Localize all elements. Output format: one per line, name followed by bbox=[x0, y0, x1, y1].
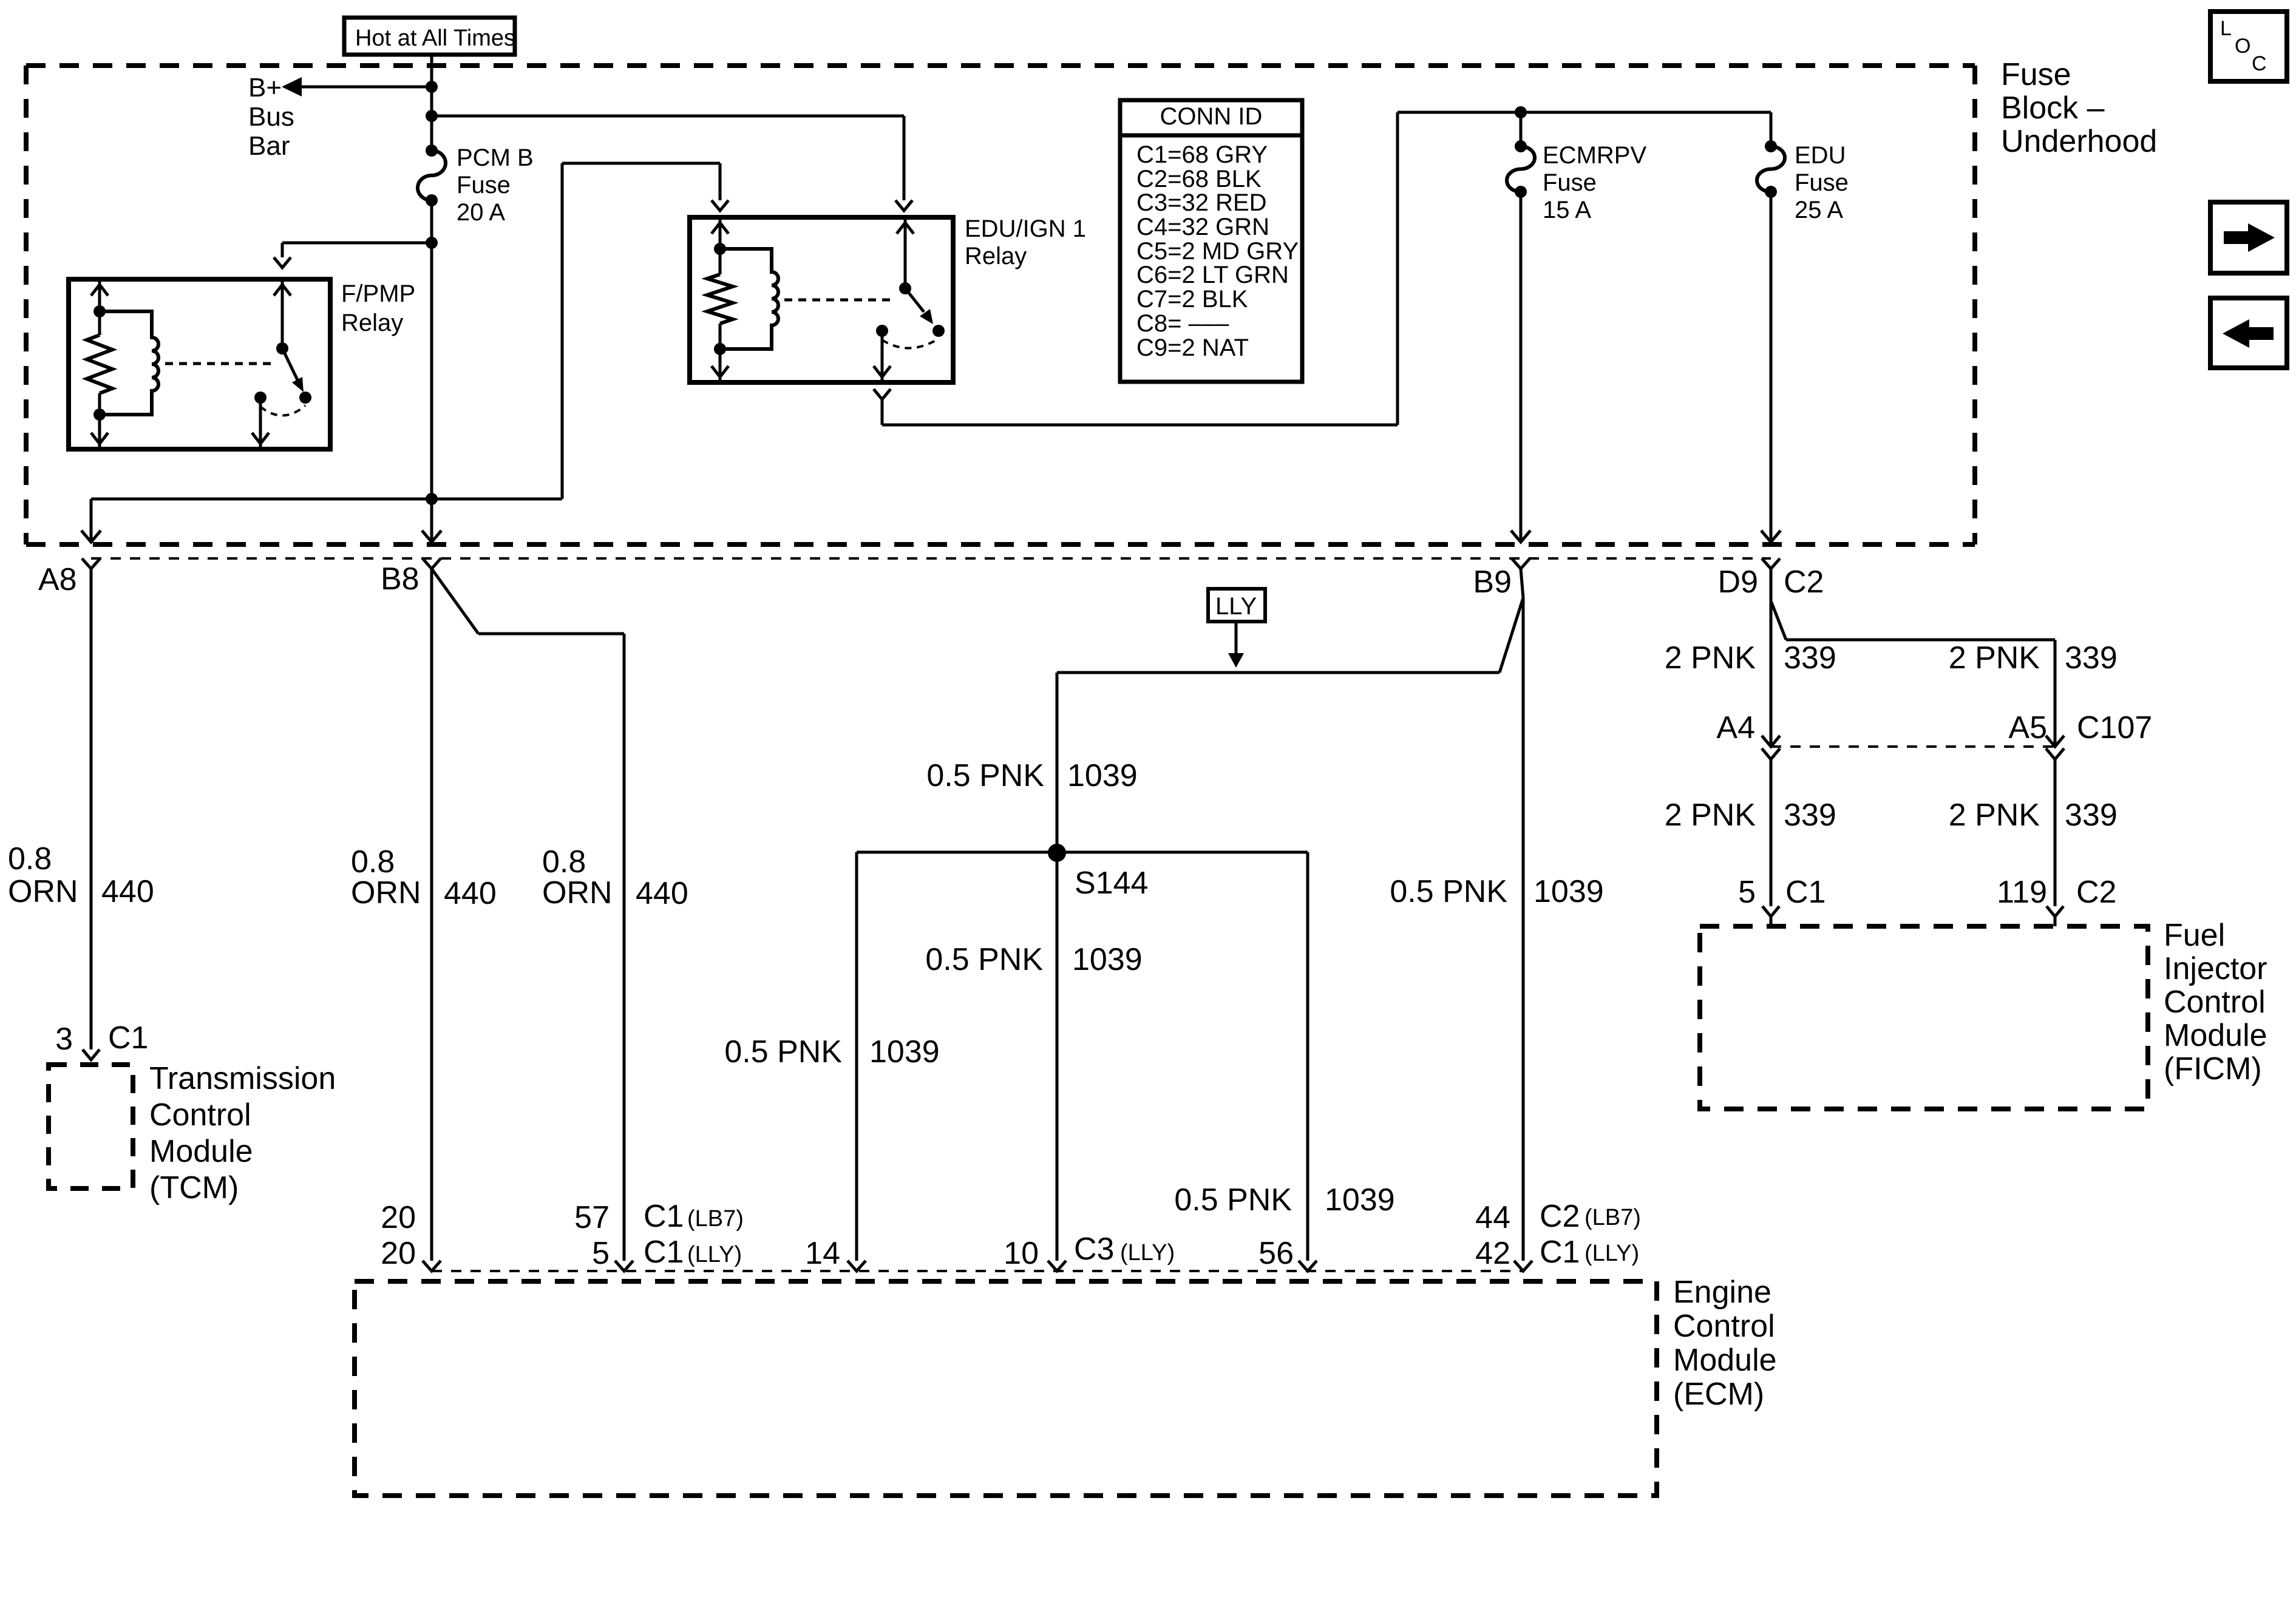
LLY application tag box with arrow bbox=[1208, 589, 1265, 668]
junction node at ECMRPV fuse feed bbox=[1515, 106, 1527, 118]
svg-text:57: 57 bbox=[574, 1200, 610, 1235]
fuse: EDU Fuse 25 A bbox=[1757, 140, 1849, 223]
svg-text:2 PNK: 2 PNK bbox=[1949, 640, 2040, 676]
wire: EDU fuse output down to D9 terminal bbox=[1770, 192, 1773, 542]
wire: circuit 440 from A8 to TCM bbox=[90, 569, 93, 1049]
svg-text:C1=68 GRY: C1=68 GRY bbox=[1136, 141, 1268, 168]
svg-text:5: 5 bbox=[592, 1236, 610, 1271]
svg-text:C4=32 GRN: C4=32 GRN bbox=[1136, 214, 1269, 240]
wire: battery feed from Hot at All Times down to PCM B fuse bbox=[430, 56, 433, 151]
connector label C1 (LB7) bbox=[644, 1199, 744, 1234]
terminal A8 exit arrow bbox=[81, 531, 101, 542]
label: Fuse Block - Underhood bbox=[2001, 57, 2157, 159]
connector Y at B8 bbox=[423, 558, 441, 569]
svg-text:C1: C1 bbox=[1540, 1235, 1580, 1270]
wire: branch from D9 circuit to C107 A5 bbox=[1771, 601, 2055, 746]
wire: circuit 1039 from B9 down to ECM pin 44/42 bbox=[1521, 569, 1523, 1261]
F/PMP relay coil winding bbox=[93, 305, 158, 421]
terminal B9 exit arrow bbox=[1511, 531, 1530, 542]
svg-text:(LB7): (LB7) bbox=[1584, 1205, 1641, 1230]
svg-text:C107: C107 bbox=[2077, 710, 2152, 745]
relay K1: F/PMP Relay box bbox=[69, 279, 415, 449]
inline connector halves at A5 bbox=[2046, 736, 2064, 759]
wire: branch from PCM B fuse output to A8 and EDU/IGN 1 coil bbox=[91, 163, 720, 542]
connector label C3 (LLY) bbox=[1074, 1232, 1175, 1267]
svg-text:339: 339 bbox=[2065, 640, 2118, 676]
svg-text:20 A: 20 A bbox=[457, 199, 505, 226]
EDU/IGN 1 relay NO contact bbox=[932, 325, 945, 337]
svg-text:O: O bbox=[2235, 35, 2250, 58]
EDU/IGN 1 relay actuation dashed link bbox=[784, 299, 891, 302]
svg-text:EDU: EDU bbox=[1795, 142, 1846, 169]
module box: Engine Control Module (ECM) bbox=[355, 1281, 1657, 1496]
svg-text:C5=2 MD GRY: C5=2 MD GRY bbox=[1136, 238, 1299, 265]
connector label C2 (LB7) bbox=[1540, 1199, 1641, 1234]
EDU/IGN 1 relay switch movable arm bbox=[905, 288, 933, 324]
fuse: ECMRPV Fuse 15 A bbox=[1507, 140, 1646, 223]
svg-text:Relay: Relay bbox=[341, 310, 403, 336]
svg-text:15 A: 15 A bbox=[1543, 197, 1591, 223]
svg-text:(FICM): (FICM) bbox=[2164, 1051, 2262, 1086]
prev-page left arrow icon bbox=[2210, 298, 2287, 368]
wire: S144 lateral to ECM pins 14 and 56 bbox=[857, 852, 1308, 1261]
svg-text:Control: Control bbox=[149, 1097, 251, 1133]
svg-text:Block –: Block – bbox=[2001, 90, 2105, 126]
connector Y into EDU/IGN 1 relay coil pin bbox=[712, 200, 729, 211]
splice S144 bbox=[1048, 844, 1148, 901]
svg-text:C2: C2 bbox=[1540, 1199, 1580, 1234]
connector Y at ECM pin 44/42 bbox=[1514, 1261, 1532, 1271]
relay K2: EDU/IGN 1 Relay box bbox=[690, 215, 1086, 382]
svg-text:(TCM): (TCM) bbox=[149, 1170, 239, 1205]
junction node to EDU/IGN 1 relay switch feed bbox=[426, 110, 438, 122]
svg-text:(ECM): (ECM) bbox=[1673, 1377, 1764, 1412]
connector Y at ECM pin 57/5 bbox=[615, 1261, 633, 1271]
svg-text:S144: S144 bbox=[1075, 866, 1148, 901]
svg-text:20: 20 bbox=[381, 1200, 416, 1235]
module box: Transmission Control Module (TCM) bbox=[49, 1065, 133, 1188]
svg-text:C: C bbox=[2252, 52, 2267, 75]
terminal D9 exit arrow bbox=[1761, 531, 1781, 542]
fuse block underhood dashed boundary box bbox=[26, 66, 1975, 544]
EDU/IGN 1 relay coil resistor bbox=[707, 249, 733, 349]
svg-text:20: 20 bbox=[381, 1236, 416, 1271]
wire: B+ feed to EDU/IGN 1 relay switch pin bbox=[432, 116, 904, 200]
terminal B8 exit arrow bbox=[422, 531, 441, 542]
wire: A5 to FICM pin 119 bbox=[2054, 759, 2057, 906]
svg-text:ORN: ORN bbox=[542, 875, 613, 910]
EDU/IGN 1 relay NC contact and output pin bbox=[874, 325, 891, 380]
power feed label box: Hot at All Times bbox=[344, 18, 515, 55]
wire: branch to F/PMP relay switch pin bbox=[282, 243, 432, 257]
connector Y below EDU/IGN 1 relay output bbox=[874, 389, 891, 399]
wire: feed into EDU fuse bbox=[1770, 112, 1773, 146]
F/PMP relay actuation dashed link bbox=[165, 362, 272, 365]
svg-text:LLY: LLY bbox=[1215, 593, 1257, 620]
junction node to F/PMP relay branch bbox=[426, 237, 438, 249]
svg-text:(LB7): (LB7) bbox=[687, 1206, 744, 1232]
connector Y at TCM pin 3 bbox=[83, 1049, 100, 1060]
wire: circuit 339 from D9 down to FICM pin 5 bbox=[1770, 569, 1773, 746]
B+ Bus Bar feed arrow bbox=[248, 73, 432, 161]
svg-text:Hot at All Times: Hot at All Times bbox=[355, 25, 515, 51]
label: Transmission Control Module (TCM) bbox=[149, 1061, 336, 1205]
svg-text:Underhood: Underhood bbox=[2001, 124, 2157, 159]
junction node at B+ arrow bbox=[426, 81, 438, 93]
wire: EDU/IGN 1 relay output to ECMRPV and EDU fuses bbox=[882, 112, 1771, 425]
junction node to A8 / EDU relay coil branch bbox=[426, 493, 438, 505]
connector Y at D9/C2 bbox=[1762, 558, 1780, 569]
svg-text:10: 10 bbox=[1004, 1236, 1039, 1271]
svg-text:Fuse: Fuse bbox=[1795, 169, 1849, 196]
svg-text:Bar: Bar bbox=[248, 131, 290, 161]
svg-text:440: 440 bbox=[636, 876, 688, 911]
wire: S144 down to ECM pin 10 bbox=[1056, 853, 1059, 1261]
EDU/IGN 1 relay switch common pin bbox=[897, 220, 914, 294]
svg-text:C1: C1 bbox=[644, 1199, 684, 1234]
svg-text:C2: C2 bbox=[1784, 564, 1824, 600]
svg-text:0.8: 0.8 bbox=[351, 844, 395, 880]
svg-text:EDU/IGN 1: EDU/IGN 1 bbox=[965, 215, 1086, 242]
svg-text:C8= –––: C8= ––– bbox=[1136, 310, 1229, 337]
svg-text:B8: B8 bbox=[381, 561, 419, 597]
svg-text:Engine: Engine bbox=[1673, 1275, 1771, 1310]
svg-text:(LLY): (LLY) bbox=[687, 1242, 742, 1267]
wire: ECMRPV fuse output down to B9 terminal bbox=[1520, 192, 1523, 542]
label: Engine Control Module (ECM) bbox=[1673, 1275, 1777, 1412]
svg-text:Fuse: Fuse bbox=[2001, 57, 2071, 92]
svg-text:C1: C1 bbox=[1785, 875, 1826, 910]
svg-text:2 PNK: 2 PNK bbox=[1949, 798, 2040, 833]
svg-text:C2: C2 bbox=[2076, 875, 2116, 910]
svg-text:339: 339 bbox=[1784, 798, 1836, 833]
connector Y at ECM pin 20 bbox=[423, 1261, 441, 1271]
svg-text:1039: 1039 bbox=[869, 1034, 940, 1070]
svg-text:Fuel: Fuel bbox=[2164, 918, 2225, 953]
svg-text:Module: Module bbox=[149, 1134, 253, 1169]
svg-text:2 PNK: 2 PNK bbox=[1665, 798, 1756, 833]
fuse block connector row dashed line bbox=[91, 557, 1771, 560]
svg-text:B+: B+ bbox=[248, 73, 282, 103]
svg-text:0.5 PNK: 0.5 PNK bbox=[1390, 874, 1507, 909]
svg-text:1039: 1039 bbox=[1533, 874, 1604, 909]
svg-text:339: 339 bbox=[1784, 640, 1836, 676]
svg-text:ORN: ORN bbox=[351, 875, 421, 910]
connector Y at ECM pin 14 bbox=[847, 1261, 866, 1271]
svg-text:C1: C1 bbox=[108, 1020, 148, 1056]
svg-text:C6=2 LT GRN: C6=2 LT GRN bbox=[1136, 262, 1289, 288]
F/PMP relay coil pin (up arrow) bbox=[91, 282, 108, 311]
EDU/IGN 1 relay coil winding bbox=[714, 243, 778, 355]
svg-text:1039: 1039 bbox=[1325, 1182, 1395, 1218]
svg-text:F/PMP: F/PMP bbox=[341, 280, 415, 307]
inline connector C107 dashed line bbox=[1771, 745, 2055, 748]
svg-text:1039: 1039 bbox=[1072, 942, 1143, 977]
connector Y at FICM pin 119 bbox=[2046, 906, 2063, 926]
svg-text:L: L bbox=[2220, 17, 2232, 40]
svg-text:CONN ID: CONN ID bbox=[1160, 103, 1263, 130]
svg-text:ORN: ORN bbox=[8, 874, 78, 909]
svg-text:0.5 PNK: 0.5 PNK bbox=[926, 758, 1044, 793]
connector Y into F/PMP relay switch pin bbox=[274, 257, 291, 268]
connector label C1 (LLY) bbox=[644, 1235, 742, 1270]
wire: circuit 440 from B8 to ECM pin 20 bbox=[430, 569, 433, 1261]
svg-text:Control: Control bbox=[2164, 985, 2266, 1020]
connector Y into EDU/IGN 1 relay switch pin bbox=[895, 200, 912, 211]
svg-text:3: 3 bbox=[55, 1022, 73, 1057]
svg-text:A5: A5 bbox=[2008, 710, 2047, 745]
svg-text:C3: C3 bbox=[1074, 1232, 1114, 1267]
CONN ID connector legend table bbox=[1120, 100, 1302, 382]
svg-text:0.8: 0.8 bbox=[8, 841, 52, 876]
wire: PCM B fuse output down to B8 terminal bbox=[430, 200, 433, 542]
wire: A4 to FICM pin 5 bbox=[1770, 759, 1773, 906]
svg-text:Injector: Injector bbox=[2164, 951, 2267, 986]
fuse: PCM B Fuse 20 A bbox=[418, 144, 534, 226]
wire: LLY branch from B9 circuit to S144 bbox=[1057, 598, 1523, 853]
svg-text:B9: B9 bbox=[1473, 564, 1512, 600]
connector Y at FICM pin 5 bbox=[1762, 906, 1779, 926]
svg-text:Relay: Relay bbox=[965, 243, 1027, 269]
inline connector halves at A4 bbox=[1762, 736, 1780, 759]
F/PMP relay coil resistor bbox=[87, 311, 112, 415]
connector Y at A8 bbox=[82, 558, 100, 569]
svg-text:D9: D9 bbox=[1718, 564, 1758, 600]
F/PMP relay contact travel dashed arc bbox=[260, 405, 305, 416]
svg-text:(LLY): (LLY) bbox=[1120, 1240, 1175, 1266]
svg-text:Bus: Bus bbox=[248, 102, 294, 132]
F/PMP relay NC contact and output pin bbox=[252, 392, 269, 447]
svg-text:2 PNK: 2 PNK bbox=[1665, 640, 1756, 676]
connector Y at ECM pin 10 bbox=[1048, 1261, 1066, 1271]
svg-text:C3=32 RED: C3=32 RED bbox=[1136, 189, 1267, 216]
wire label 0.8 ORN (B8 branch 2) bbox=[542, 844, 613, 910]
F/PMP relay NO contact bbox=[299, 392, 311, 404]
F/PMP relay coil lower pin (down arrow) bbox=[91, 415, 108, 447]
svg-text:C9=2 NAT: C9=2 NAT bbox=[1136, 334, 1249, 361]
svg-text:0.8: 0.8 bbox=[542, 844, 586, 880]
svg-text:56: 56 bbox=[1258, 1236, 1294, 1271]
svg-text:25 A: 25 A bbox=[1795, 197, 1843, 223]
svg-text:C2=68 BLK: C2=68 BLK bbox=[1136, 166, 1262, 192]
wire label 0.8 ORN (B8 branch 1) bbox=[351, 844, 421, 910]
svg-text:42: 42 bbox=[1475, 1236, 1510, 1271]
svg-text:14: 14 bbox=[805, 1236, 840, 1271]
svg-text:Fuse: Fuse bbox=[457, 172, 511, 198]
LOC page icon box bbox=[2210, 12, 2287, 81]
svg-text:Module: Module bbox=[2164, 1018, 2267, 1053]
svg-text:Control: Control bbox=[1673, 1309, 1775, 1344]
wire: circuit 440 branch from B8 to ECM pin 57/5 bbox=[432, 569, 624, 1261]
svg-text:339: 339 bbox=[2065, 798, 2118, 833]
F/PMP relay switch common pin bbox=[274, 282, 291, 354]
svg-text:ECMRPV: ECMRPV bbox=[1543, 142, 1646, 169]
svg-text:44: 44 bbox=[1475, 1200, 1510, 1235]
F/PMP relay switch movable arm bbox=[282, 348, 304, 392]
connector label C1 (LLY) at pin 42 bbox=[1540, 1235, 1639, 1270]
svg-text:PCM B: PCM B bbox=[457, 144, 534, 171]
svg-text:119: 119 bbox=[1997, 875, 2047, 910]
module box: Fuel Injector Control Module (FICM) bbox=[1700, 926, 2148, 1109]
svg-text:0.5 PNK: 0.5 PNK bbox=[724, 1034, 842, 1070]
svg-text:440: 440 bbox=[101, 874, 154, 909]
connector Y at B9 bbox=[1512, 558, 1530, 569]
svg-text:1039: 1039 bbox=[1067, 758, 1138, 793]
ECM connector row dashed line bbox=[432, 1270, 1523, 1272]
svg-text:A4: A4 bbox=[1716, 710, 1755, 745]
EDU/IGN 1 relay coil pin (up arrow) bbox=[712, 220, 729, 249]
svg-text:Module: Module bbox=[1673, 1343, 1777, 1378]
wire: feed into ECMRPV fuse bbox=[1520, 112, 1523, 146]
svg-text:Fuse: Fuse bbox=[1543, 169, 1597, 196]
svg-text:440: 440 bbox=[444, 876, 497, 911]
svg-text:C7=2 BLK: C7=2 BLK bbox=[1136, 286, 1248, 313]
svg-text:0.5 PNK: 0.5 PNK bbox=[1174, 1182, 1292, 1218]
svg-text:0.5 PNK: 0.5 PNK bbox=[925, 942, 1043, 977]
wire label 0.8 ORN bbox=[8, 841, 78, 909]
label: Fuel Injector Control Module (FICM) bbox=[2164, 918, 2267, 1086]
EDU/IGN 1 relay coil lower pin (down arrow) bbox=[712, 349, 729, 380]
svg-text:5: 5 bbox=[1738, 875, 1756, 910]
svg-text:A8: A8 bbox=[38, 562, 77, 597]
EDU/IGN 1 relay contact travel dashed arc bbox=[882, 339, 939, 348]
svg-text:C1: C1 bbox=[644, 1235, 684, 1270]
svg-text:Transmission: Transmission bbox=[149, 1061, 336, 1096]
connector Y at ECM pin 56 bbox=[1299, 1261, 1317, 1271]
svg-text:(LLY): (LLY) bbox=[1584, 1241, 1639, 1266]
next-page right arrow icon bbox=[2210, 202, 2287, 273]
